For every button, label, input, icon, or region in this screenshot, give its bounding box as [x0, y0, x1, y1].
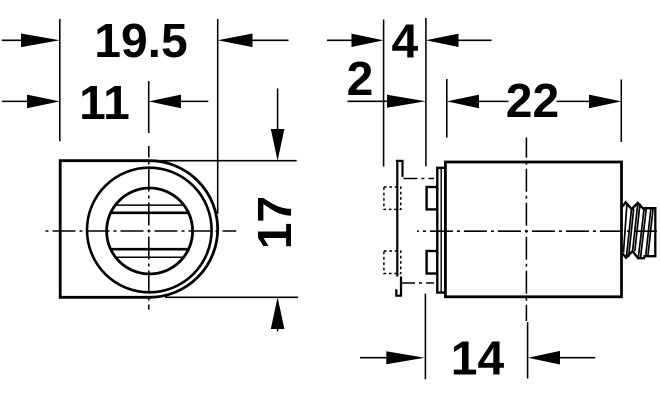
svg-text:17: 17	[249, 196, 302, 249]
svg-text:22: 22	[506, 75, 559, 128]
svg-text:11: 11	[79, 77, 130, 130]
svg-text:14: 14	[451, 333, 505, 386]
svg-text:2: 2	[347, 53, 374, 106]
svg-text:4: 4	[391, 15, 418, 68]
svg-text:19.5: 19.5	[94, 15, 187, 68]
